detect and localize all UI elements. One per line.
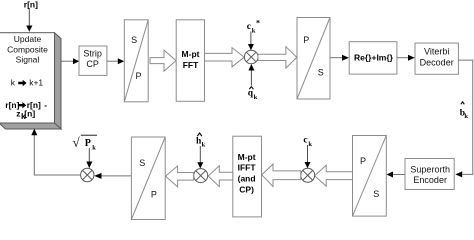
node h_k hat label [196,133,206,148]
svg-text:-: - [44,100,47,110]
svg-text:Superorth: Superorth [410,164,450,174]
svg-text:k: k [254,94,258,101]
svg-text:P: P [303,35,309,45]
svg-text:Re{}+Im{}: Re{}+Im{} [354,53,394,63]
wire Superorth Encoder to S/P (bottom) [393,174,405,176]
bus arrow multiplier to P/S [258,47,297,68]
P/S converter box (bottom left) [131,137,165,220]
wire P/S to Re+Im [330,57,343,59]
update composite signal box U1 (3D) [0,33,61,129]
svg-text:c: c [247,22,251,32]
Re{}+Im{} box [349,42,397,74]
wire c_k into multiplier X2 [307,145,309,163]
P/S converter box (top) [297,18,330,100]
svg-text:M-pt: M-pt [238,152,256,162]
node c_k^* label [247,19,260,35]
svg-text:k: k [92,144,96,151]
multiplier X4 (power sqrt P_k) [81,168,94,181]
strip CP box [79,46,107,75]
bus arrow multiplier X2 to IFFT [262,164,301,186]
svg-text:P: P [151,189,157,199]
node b_k hat label [460,102,469,120]
multiplier X2 (spread c_k) [301,168,315,182]
svg-text:√: √ [73,135,81,150]
M-pt IFFT (and CP) box [233,136,262,217]
svg-text:k: k [308,141,312,148]
node q_k hat label [248,87,258,101]
bus arrow FFT to multiplier [205,48,245,67]
svg-text:z: z [16,109,20,119]
S/P converter box (bottom right) [353,136,387,217]
svg-text:Encoder: Encoder [413,175,447,185]
svg-text:(and: (and [238,174,256,184]
svg-text:CP): CP) [239,184,254,194]
svg-text:P: P [360,156,366,166]
wire sqrt(P_k) into multiplier X4 [88,148,90,162]
Superorth Encoder box [405,159,454,190]
wire Update box to Strip CP [61,60,74,62]
bus arrow S/P to multiplier X2 [315,165,353,186]
svg-text:k: k [11,78,16,88]
svg-text:S: S [318,68,324,78]
svg-text:c: c [303,136,307,146]
node c_k label (bottom) [303,136,312,149]
svg-text:k: k [464,113,468,120]
svg-text:*: * [256,19,260,28]
wire Viterbi output feedback to Superorth Encoder [458,60,472,174]
feedback wire X4 to Update box [34,135,80,175]
svg-text:M-pt: M-pt [182,49,200,59]
svg-text:S: S [131,35,137,45]
bus arrow multiplier X3 to P/S (bottom left) [166,166,194,187]
svg-text:IFFT: IFFT [238,163,257,173]
multiplier X3 (channel h_k) [194,169,208,183]
svg-text:P: P [135,71,141,81]
node sqrt(P_k) label [73,135,98,152]
svg-text:S: S [139,158,145,168]
svg-text:r[n]: r[n] [24,0,38,9]
multiplier X1 (despread) [244,50,258,64]
svg-text:S: S [373,189,379,199]
svg-text:k+1: k+1 [29,78,43,88]
svg-text:[n]: [n] [24,109,35,119]
svg-text:Signal: Signal [16,54,40,64]
svg-text:Decoder: Decoder [420,57,454,67]
wire h_k into multiplier X3 [199,146,201,163]
svg-text:Strip: Strip [83,49,102,59]
M-pt FFT box [176,20,204,102]
wire Strip CP to S/P converter [107,60,119,62]
svg-text:Viterbi: Viterbi [424,47,449,57]
wire c_k^* into multiplier X1 [250,32,252,45]
bus arrow IFFT to multiplier X3 [208,166,233,187]
svg-text:FFT: FFT [183,60,199,70]
S/P converter box (top) [124,20,148,102]
svg-text:k: k [202,141,206,148]
svg-text:k: k [252,28,256,35]
svg-text:Composite: Composite [7,44,48,54]
wire Re+Im to Viterbi [397,57,409,59]
bus arrow S/P to FFT [150,50,176,71]
Viterbi Decoder box [415,43,458,74]
wire r[n] to Update box [28,9,30,26]
svg-text:P: P [85,138,91,149]
wire P/S to multiplier X4 [102,175,132,177]
svg-text:CP: CP [86,59,99,69]
svg-text:Update: Update [14,34,42,44]
wire q_k into multiplier X1 [250,70,252,86]
